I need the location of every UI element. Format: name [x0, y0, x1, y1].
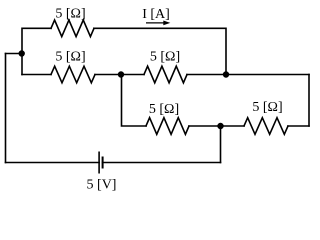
wire node A to left rail	[6, 53, 22, 55]
wire node A down to row 2	[21, 54, 23, 75]
wire R5 to right rail	[288, 125, 309, 127]
svg-text:5 [Ω]: 5 [Ω]	[252, 100, 282, 115]
svg-text:5 [Ω]: 5 [Ω]	[55, 6, 85, 21]
wire bottom rail left to battery positive plate	[6, 162, 100, 164]
battery V1 positive long plate	[98, 152, 100, 174]
resistor R4 zigzag row 3 left	[146, 118, 189, 135]
svg-text:I [A]: I [A]	[142, 7, 170, 22]
wire node B down to row 3	[122, 75, 147, 127]
wire left rail vertical	[5, 54, 7, 163]
node A junction dot	[19, 50, 25, 56]
wire top branch left from corner down to node A	[22, 28, 51, 53]
resistor R2 zigzag row 2 left	[51, 66, 95, 83]
current arrow for I	[146, 21, 170, 26]
svg-text:5 [Ω]: 5 [Ω]	[55, 50, 85, 65]
wire battery negative plate to bottom right corner	[103, 162, 221, 164]
wire top branch right with corner down to node D	[94, 28, 226, 74]
resistor R3 zigzag row 2 right	[144, 66, 187, 83]
svg-text:5 [Ω]: 5 [Ω]	[149, 102, 179, 117]
node C junction dot	[217, 123, 223, 129]
node D junction dot	[223, 71, 229, 77]
wire right rail vertical	[308, 75, 310, 127]
battery V1 negative short plate	[102, 157, 104, 169]
svg-text:5 [V]: 5 [V]	[87, 178, 117, 193]
resistor R5 zigzag row 3 right	[244, 118, 288, 135]
wire node C down to bottom rail	[220, 126, 222, 163]
wire row 2 left segment	[22, 74, 51, 76]
wire node C to R5	[221, 125, 245, 127]
svg-text:5 [Ω]: 5 [Ω]	[150, 49, 180, 64]
wire node D to right rail	[226, 74, 309, 76]
wire R3 to node D	[187, 74, 226, 76]
node B junction dot	[118, 71, 124, 77]
wire node B to R3	[121, 74, 144, 76]
wire R2 to node B	[95, 74, 121, 76]
wire R4 to node C	[189, 125, 221, 127]
resistor R1 zigzag top branch	[51, 20, 94, 37]
